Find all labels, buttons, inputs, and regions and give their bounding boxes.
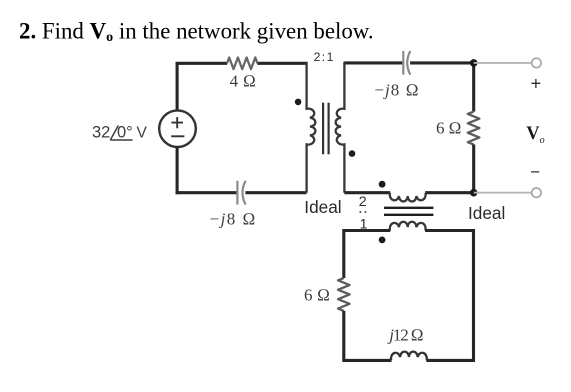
wire loop2 top [344,61,473,64]
wire loop1 left top [176,63,179,110]
svg-text:j12 Ω: j12 Ω [387,326,423,345]
wire loop2 right bottom [472,144,475,192]
svg-text:Ideal: Ideal [468,203,505,223]
resistor R2 6ohm zigzag [468,112,480,145]
junction dot top [470,59,478,67]
wire loop1 bottom [176,191,307,194]
svg-text:0°: 0° [117,124,133,142]
inductor L1 j12 [391,352,427,361]
T1 core [323,103,329,154]
T2 core [384,208,433,215]
angle slash of source label [110,126,118,141]
svg-text:2:1: 2:1 [314,50,334,64]
plus sign of source [171,117,183,128]
svg-text:−j8 Ω: −j8 Ω [374,81,418,100]
T1 dot left [295,99,302,106]
T2 dot top [379,181,386,188]
svg-text:32: 32 [92,124,110,142]
wire loop3 left bottom [342,311,345,361]
transformer T1 right winding [336,62,345,193]
junction dot bottom [470,189,478,197]
wire loop2 right top [472,63,475,112]
voltage source VS 32∠0° [159,110,196,147]
capacitor C1 -j8 plates [236,181,238,205]
minus sign of source [171,135,184,137]
svg-text:4 Ω: 4 Ω [230,71,256,90]
resistor R3 6ohm zigzag [338,278,350,311]
terminal lead bottom [474,192,532,194]
T1 dot right [349,150,356,157]
wire loop1 left bottom [176,147,179,194]
terminal circle top [532,58,541,67]
transformer T1 left winding [307,62,316,193]
wire loop3 top left [344,231,391,279]
svg-text:V: V [137,125,148,142]
terminal circle bottom [532,188,541,197]
capacitor C2 -j8 plates [402,51,404,75]
resistor R1 4ohm zigzag [227,58,258,70]
svg-text:6 Ω: 6 Ω [436,118,462,137]
transformer T2 bottom winding [390,222,426,231]
wire loop2 bottom [344,191,473,194]
wire loop3 top right [425,231,473,361]
angle underline of source label [110,139,132,141]
svg-text:−j8 Ω: −j8 Ω [210,209,256,228]
T2 dot bottom [379,237,386,244]
svg-text:6 Ω: 6 Ω [304,286,330,305]
svg-text:2: 2 [359,194,367,210]
svg-text:2. Find Vo in the network give: 2. Find Vo in the network given below. [19,19,374,46]
source label 32∠0° V [92,124,148,142]
svg-text:−: − [530,163,540,182]
transformer T2 top winding [390,193,426,202]
terminal lead top [474,62,532,64]
wire loop3 bottom [342,359,475,362]
ratio divider [360,211,367,213]
wire loop1 top [176,62,307,65]
svg-text:+: + [531,74,542,94]
svg-text:Ideal: Ideal [304,197,341,217]
